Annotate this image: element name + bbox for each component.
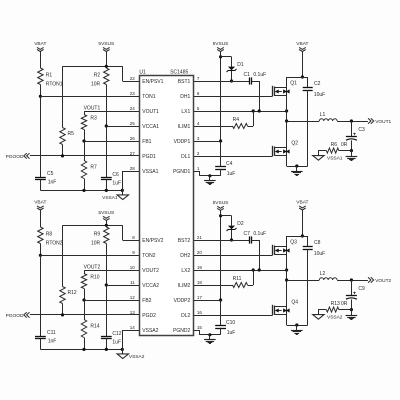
svg-text:EN/PSV1: EN/PSV1 xyxy=(142,79,163,85)
capacitor C2 (10uF) input xyxy=(303,77,326,166)
wire pin PGND1 xyxy=(193,171,199,173)
svg-text:21: 21 xyxy=(197,235,203,240)
node VCCA1 xyxy=(105,124,108,127)
svg-text:R1: R1 xyxy=(46,72,53,78)
node C9 ground xyxy=(350,308,353,311)
wire VBAT down to half-bridge xyxy=(302,51,304,77)
ground PGND2 xyxy=(204,335,216,344)
power flag 5VSUS center 1 xyxy=(213,41,229,52)
svg-text:23: 23 xyxy=(130,91,136,96)
node TON2 junction xyxy=(39,254,42,257)
transistor Q2 low side xyxy=(273,141,299,157)
junction dots on rail xyxy=(82,348,124,351)
wire pin BST2 to cap C7 xyxy=(193,240,249,242)
wire pin VSSA2 to rail xyxy=(122,330,139,332)
svg-text:1nF: 1nF xyxy=(48,339,57,345)
wire pin DL2 to Q4 gate xyxy=(193,315,272,317)
svg-text:10uF: 10uF xyxy=(314,251,325,257)
wire half-bridge top rail xyxy=(287,77,308,79)
wire analog ground rail 1 xyxy=(40,190,122,192)
wire C10 bottom to PGND2 xyxy=(220,328,222,335)
node PGND2 xyxy=(208,333,211,336)
svg-text:R10: R10 xyxy=(90,275,99,281)
wire pin BST1 to cap C1 xyxy=(193,81,249,83)
power flag 5VSUS center 2 xyxy=(213,200,229,211)
wire C12 to rail xyxy=(106,339,108,350)
svg-text:PGD1: PGD1 xyxy=(142,154,156,160)
svg-text:ILIM2: ILIM2 xyxy=(178,283,191,289)
net flag VOUT1 output xyxy=(368,118,392,125)
svg-text:C2: C2 xyxy=(314,81,321,87)
resistor R7 divider bottom xyxy=(81,141,97,190)
svg-text:5VSUS: 5VSUS xyxy=(98,41,114,47)
svg-text:15: 15 xyxy=(197,325,203,330)
svg-text:D2: D2 xyxy=(237,221,244,227)
wire pin DL1 to Q2 gate xyxy=(193,156,272,158)
svg-text:R5: R5 xyxy=(68,131,75,137)
U1 pin numbers bank1 xyxy=(130,76,200,171)
svg-text:DH1: DH1 xyxy=(180,94,190,100)
svg-text:C8: C8 xyxy=(314,240,321,246)
capacitor C11 (1nF) xyxy=(35,330,56,345)
svg-text:C11: C11 xyxy=(47,330,56,336)
svg-text:27: 27 xyxy=(130,151,136,156)
node BST1 diode xyxy=(230,79,233,82)
net flag VOUT2 output xyxy=(368,277,392,284)
node 5VSUS branch to diode xyxy=(219,55,222,58)
resistor R11 ILIM xyxy=(193,270,253,288)
svg-text:5VSUS: 5VSUS xyxy=(213,41,229,47)
svg-text:26: 26 xyxy=(130,136,136,141)
wire VBAT to R8 xyxy=(40,210,42,227)
wire half-bridge chain Q3/Q4 xyxy=(286,236,288,325)
svg-text:0.1uF: 0.1uF xyxy=(253,231,266,237)
svg-text:5VSUS: 5VSUS xyxy=(98,210,114,216)
resistor R4 ILIM xyxy=(193,111,253,129)
svg-text:1uF: 1uF xyxy=(112,181,121,187)
svg-text:PGOOD: PGOOD xyxy=(6,313,24,319)
svg-text:R11: R11 xyxy=(233,276,242,282)
node bottom rail xyxy=(295,164,298,167)
svg-text:VSSA1: VSSA1 xyxy=(142,169,158,175)
node L2 branch xyxy=(285,278,288,281)
resistor R13 (0R) VSSA tie xyxy=(318,301,351,315)
svg-text:VOUT2: VOUT2 xyxy=(84,265,101,271)
ground VSSA1 symbol right xyxy=(313,156,343,162)
wire pin VDDP1 xyxy=(193,141,220,143)
svg-text:L1: L1 xyxy=(320,112,326,118)
svg-text:Q2: Q2 xyxy=(291,141,298,147)
resistor R3 divider top xyxy=(81,111,97,141)
svg-text:VBAT: VBAT xyxy=(296,41,308,47)
inductor L2 xyxy=(287,271,368,281)
power flag VBAT left VBAT xyxy=(34,41,46,52)
svg-text:22: 22 xyxy=(130,76,136,81)
wire net LX2 xyxy=(193,270,286,272)
wire 5VSUS to EN junction xyxy=(106,51,108,68)
svg-text:BST1: BST1 xyxy=(178,79,191,85)
node FB2 xyxy=(82,298,85,301)
wire half-bridge bottom rail xyxy=(287,325,308,327)
wire to diode D2 xyxy=(221,215,232,217)
wire VOUT1 to pin xyxy=(84,111,139,113)
node VDDP2 xyxy=(219,298,222,301)
capacitor C8 (10uF) input xyxy=(303,236,326,325)
wire FB1 to pin xyxy=(84,141,139,143)
svg-text:R12: R12 xyxy=(68,290,77,296)
wire VCCA1 down to C6 xyxy=(106,126,108,177)
svg-text:R2: R2 xyxy=(94,72,101,78)
ground VSSA2 symbol right xyxy=(313,315,343,321)
svg-text:VSSA2: VSSA2 xyxy=(142,328,158,334)
node VCCA2 xyxy=(105,283,108,286)
svg-text:PGOOD: PGOOD xyxy=(6,154,24,160)
node VOUT1/C output xyxy=(350,119,353,122)
svg-text:VSSA1: VSSA1 xyxy=(327,156,343,162)
wire PGOOD to pin PGD1 xyxy=(30,155,139,157)
wire 5VSUS to EN junction xyxy=(106,220,108,227)
wire EN/PSV2 net xyxy=(63,225,123,227)
diode D1 bootstrap xyxy=(227,57,244,81)
wire PGOOD to pin PGD2 xyxy=(30,314,139,316)
ground output cap 2 xyxy=(346,310,358,320)
svg-text:LX2: LX2 xyxy=(181,268,190,274)
wire VCCA2 to pin xyxy=(106,285,139,287)
junction dots on rail xyxy=(82,189,124,192)
wire TON node down to C11 xyxy=(40,255,42,336)
svg-text:R7: R7 xyxy=(90,165,97,171)
node VOUT2/C output xyxy=(350,278,353,281)
wire C6 to rail xyxy=(106,180,108,191)
node PGND1 xyxy=(208,174,211,177)
svg-text:DL1: DL1 xyxy=(181,154,190,160)
svg-text:PGND2: PGND2 xyxy=(173,328,190,334)
svg-text:VSSA1: VSSA1 xyxy=(102,195,118,201)
wire VCCA2 down to C12 xyxy=(106,285,108,336)
svg-text:R8: R8 xyxy=(46,231,53,237)
node TON1 junction xyxy=(39,95,42,98)
wire pin VDDP2 xyxy=(193,300,220,302)
svg-text:1uF: 1uF xyxy=(112,340,121,346)
svg-text:18: 18 xyxy=(197,280,203,285)
svg-text:Q3: Q3 xyxy=(290,240,297,246)
svg-text:C6: C6 xyxy=(112,172,119,178)
svg-text:PGD2: PGD2 xyxy=(142,313,156,319)
net flag PGOOD 1 xyxy=(6,153,30,160)
svg-text:VBAT: VBAT xyxy=(34,199,46,205)
svg-text:0.1uF: 0.1uF xyxy=(253,72,266,78)
wire VCCA1 to pin xyxy=(106,126,139,128)
svg-text:ILIM1: ILIM1 xyxy=(178,124,191,130)
node R12 on PGOOD xyxy=(61,313,64,316)
svg-text:C3: C3 xyxy=(358,127,365,133)
svg-text:VOUT1: VOUT1 xyxy=(84,106,101,112)
svg-text:VOUT2: VOUT2 xyxy=(142,268,159,274)
svg-text:C10: C10 xyxy=(226,320,235,326)
wire net LX1 xyxy=(193,111,286,113)
capacitor C1 (0.1uF) bootstrap xyxy=(244,72,267,85)
svg-text:R4: R4 xyxy=(233,117,240,123)
wire R9 to VCCA2 xyxy=(106,244,108,286)
node BST2 diode xyxy=(230,238,233,241)
ground PGND1 xyxy=(204,176,216,185)
svg-text:C1: C1 xyxy=(244,72,251,78)
ground VSSA1 symbol bottom xyxy=(102,195,128,201)
node VDDP1 xyxy=(219,139,222,142)
wire half-bridge chain Q1/Q2 xyxy=(286,77,288,166)
power flag 5VSUS left 1 xyxy=(98,41,114,52)
wire pin DH2 to Q3 gate xyxy=(193,255,272,257)
node 5VSUS branch to diode xyxy=(219,214,222,217)
svg-text:VCCA2: VCCA2 xyxy=(142,283,159,289)
resistor R14 divider bottom xyxy=(81,300,99,349)
node C3 ground xyxy=(350,149,353,152)
svg-text:25: 25 xyxy=(130,121,136,126)
node VBAT on rail xyxy=(301,75,304,78)
svg-text:13: 13 xyxy=(130,310,136,315)
svg-text:R3: R3 xyxy=(90,116,97,122)
svg-text:C12: C12 xyxy=(112,331,121,337)
svg-text:16: 16 xyxy=(197,310,203,315)
svg-text:10R: 10R xyxy=(91,81,101,87)
wire C1 to LX1 xyxy=(252,81,259,83)
svg-text:TON2: TON2 xyxy=(142,253,155,259)
wire R2 to VCCA1 xyxy=(106,85,108,127)
wire half-bridge bottom rail xyxy=(287,166,308,168)
wire FB2 to pin xyxy=(84,300,139,302)
wire R8 to TON junction xyxy=(40,244,42,256)
svg-text:VDDP1: VDDP1 xyxy=(174,139,191,145)
svg-text:DH2: DH2 xyxy=(180,253,190,259)
svg-text:0R: 0R xyxy=(341,142,348,148)
U1 pin names bank1 xyxy=(142,79,190,175)
svg-text:EN/PSV2: EN/PSV2 xyxy=(142,238,163,244)
power flag 5VSUS left 2 xyxy=(98,210,114,221)
svg-text:VDDP2: VDDP2 xyxy=(174,298,191,304)
resistor R2 (10R) xyxy=(91,68,109,87)
svg-text:11: 11 xyxy=(130,280,135,285)
svg-text:C7: C7 xyxy=(244,231,251,237)
power flag VBAT center 1 xyxy=(296,41,308,52)
capacitor C7 (0.1uF) bootstrap xyxy=(244,231,267,244)
capacitor C5 (1nF) xyxy=(35,171,56,186)
svg-text:C5: C5 xyxy=(47,171,54,177)
net flag PGOOD 2 xyxy=(6,312,30,319)
svg-text:VBAT: VBAT xyxy=(296,199,308,205)
svg-text:PGND1: PGND1 xyxy=(173,169,190,175)
power flag VBAT center 2 xyxy=(296,199,308,210)
svg-text:VOUT1: VOUT1 xyxy=(375,119,391,125)
capacitor C3 output xyxy=(346,121,365,151)
capacitor C12 (1uF) xyxy=(101,331,122,346)
svg-text:C4: C4 xyxy=(226,161,233,167)
wire 5VSUS center rail down to VDDP xyxy=(220,51,222,166)
U1 pin numbers bank2 xyxy=(130,235,203,330)
svg-text:FB1: FB1 xyxy=(142,139,151,145)
svg-text:14: 14 xyxy=(130,325,136,330)
svg-text:VOUT2: VOUT2 xyxy=(375,278,391,284)
node R5 on PGOOD xyxy=(61,154,64,157)
svg-text:VSSA2: VSSA2 xyxy=(129,354,145,360)
svg-text:U1: U1 xyxy=(139,70,146,76)
wire net TON2 to pin 9 xyxy=(40,255,139,257)
wire half-bridge top rail xyxy=(287,236,308,238)
inductor L1 xyxy=(287,112,368,122)
svg-text:DL2: DL2 xyxy=(181,313,190,319)
capacitor C9 output xyxy=(346,280,365,310)
svg-text:VBAT: VBAT xyxy=(34,41,46,47)
wire 5VSUS center rail down to VDDP xyxy=(220,210,222,325)
svg-text:10: 10 xyxy=(130,265,136,270)
svg-text:12: 12 xyxy=(130,295,136,300)
node 5VSUS / EN junction xyxy=(105,224,108,227)
svg-text:BST2: BST2 xyxy=(178,238,191,244)
wire analog ground rail 2 xyxy=(40,349,122,351)
svg-text:L2: L2 xyxy=(320,271,326,277)
svg-text:Q4: Q4 xyxy=(291,300,298,306)
svg-text:24: 24 xyxy=(130,106,136,111)
svg-text:VCCA1: VCCA1 xyxy=(142,124,159,130)
ground output cap 1 xyxy=(346,151,358,161)
wire pin DH1 to Q1 gate xyxy=(193,96,272,98)
wire C11 to analog ground rail xyxy=(40,339,42,350)
wire pin PGND2 xyxy=(193,330,199,332)
transistor Q3 high side xyxy=(273,240,298,256)
svg-text:1uF: 1uF xyxy=(227,171,236,177)
svg-text:10uF: 10uF xyxy=(314,92,325,98)
svg-text:Q1: Q1 xyxy=(290,81,297,87)
wire EN/PSV1 net xyxy=(63,66,123,68)
op-amp U1 IC SC1485 body xyxy=(139,70,193,336)
svg-text:0R: 0R xyxy=(341,301,348,307)
transistor Q4 low side xyxy=(273,300,299,316)
svg-text:VOUT1: VOUT1 xyxy=(142,109,159,115)
svg-text:R6: R6 xyxy=(331,142,338,148)
capacitor C10 (1uF) VDDP decoupling xyxy=(215,320,235,336)
svg-text:RTON2: RTON2 xyxy=(46,240,63,246)
wire R1 to TON junction xyxy=(40,85,42,97)
wire VBAT to R1 xyxy=(40,51,42,68)
resistor R6 (0R) VSSA tie xyxy=(318,142,351,156)
svg-text:RTON1: RTON1 xyxy=(46,81,63,87)
ground power stage 2 xyxy=(291,325,303,335)
svg-text:FB2: FB2 xyxy=(142,298,151,304)
ground VSSA2 symbol bottom xyxy=(117,354,145,360)
resistor R5 pull-up xyxy=(60,66,74,156)
wire C7 to LX2 xyxy=(252,240,259,242)
svg-text:SC1485: SC1485 xyxy=(170,70,188,76)
resistor R12 pull-up xyxy=(60,225,77,315)
svg-text:C9: C9 xyxy=(358,286,365,292)
svg-text:R14: R14 xyxy=(90,324,99,330)
svg-text:17: 17 xyxy=(197,295,203,300)
wire C4 bottom to PGND1 xyxy=(220,169,222,176)
svg-text:LX1: LX1 xyxy=(181,109,190,115)
svg-text:TON1: TON1 xyxy=(142,94,155,100)
svg-text:R13: R13 xyxy=(331,301,340,307)
node VBAT on rail xyxy=(301,234,304,237)
wire TON node down to C5 xyxy=(40,96,42,177)
power flag VBAT left VBAT xyxy=(34,199,46,210)
wire net TON1 to pin 23 xyxy=(40,96,139,98)
node LX1 junctions xyxy=(252,109,289,112)
wire VBAT down to half-bridge xyxy=(302,210,304,236)
node LX2 junctions xyxy=(252,268,289,271)
wire VOUT2 to pin xyxy=(84,270,139,272)
svg-text:20: 20 xyxy=(197,250,203,255)
svg-text:1uF: 1uF xyxy=(227,330,236,336)
resistor R8 (RTON2) xyxy=(38,227,63,246)
resistor R9 (10R) xyxy=(91,227,109,246)
capacitor C4 (1uF) VDDP decoupling xyxy=(215,161,235,177)
node L1 branch xyxy=(285,119,288,122)
wire pin VSSA1 to rail xyxy=(122,171,139,173)
svg-text:R9: R9 xyxy=(94,231,101,237)
node bottom rail xyxy=(295,323,298,326)
svg-text:D1: D1 xyxy=(237,62,244,68)
transistor Q1 high side xyxy=(273,81,298,97)
svg-text:5VSUS: 5VSUS xyxy=(213,200,229,206)
svg-text:19: 19 xyxy=(197,265,203,270)
svg-text:28: 28 xyxy=(130,166,136,171)
wire C5 to analog ground rail xyxy=(40,180,42,191)
resistor R10 divider top xyxy=(81,270,99,300)
svg-text:1nF: 1nF xyxy=(48,180,57,186)
resistor R1 (RTON1) xyxy=(38,68,63,87)
node 5VSUS / EN junction xyxy=(105,65,108,68)
svg-text:10R: 10R xyxy=(91,240,101,246)
node FB1 xyxy=(82,139,85,142)
diode D2 bootstrap xyxy=(227,216,244,240)
ground power stage 1 xyxy=(291,166,303,176)
capacitor C6 (1uF) xyxy=(101,172,121,187)
wire to diode D1 xyxy=(221,56,232,58)
U1 pin names bank2 xyxy=(142,238,190,334)
svg-text:VSSA2: VSSA2 xyxy=(327,315,343,321)
